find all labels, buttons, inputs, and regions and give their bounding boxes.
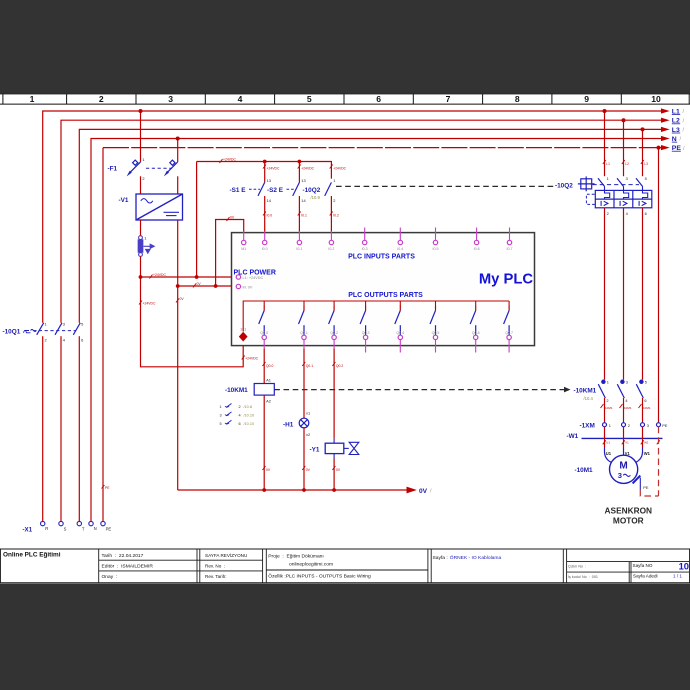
svg-text:Rev. No :: Rev. No : xyxy=(205,564,225,569)
PE drop wire to 1XM xyxy=(658,148,660,423)
svg-text:Sayfa NO: Sayfa NO xyxy=(633,563,653,568)
svg-text:13: 13 xyxy=(301,178,305,183)
wire 10Q2 aux to PLC input I0.2 xyxy=(330,196,332,233)
svg-text:I0.7: I0.7 xyxy=(507,247,513,251)
svg-text:4: 4 xyxy=(626,211,629,216)
wire label -10M1 pole1 xyxy=(601,404,613,410)
output stub Q0.7 xyxy=(508,340,510,353)
svg-text:-F1: -F1 xyxy=(108,166,118,173)
svg-text:14: 14 xyxy=(301,198,306,203)
svg-text:6: 6 xyxy=(81,338,83,343)
svg-text:2: 2 xyxy=(142,176,144,181)
svg-text:/: / xyxy=(683,109,685,115)
wire label +24VDC on output riser xyxy=(242,356,259,361)
svg-text:L1: +24VDC: L1: +24VDC xyxy=(243,276,264,280)
wire label I0.2 xyxy=(330,212,339,218)
motor PE lead xyxy=(639,478,641,490)
wire label +24VDC at 10Q2 aux xyxy=(330,165,347,171)
svg-text:+24VDC: +24VDC xyxy=(143,302,156,306)
svg-text:+24VDC: +24VDC xyxy=(301,166,314,170)
svg-text:4: 4 xyxy=(239,413,241,417)
10Q2 breaker pins 2,4,6 xyxy=(607,211,647,216)
cable W1 line xyxy=(582,437,663,439)
KM1 contact pole 2 xyxy=(617,380,624,398)
svg-text:Sayfa :: Sayfa : xyxy=(433,555,448,561)
output stub Q0.5 xyxy=(435,340,437,353)
svg-text:İş kodu/ No : 001: İş kodu/ No : 001 xyxy=(568,574,598,579)
wire label Q0.2 net xyxy=(332,362,343,368)
wire V1 out to fuse xyxy=(140,220,142,236)
svg-text:8: 8 xyxy=(515,94,520,104)
svg-text:+24VDC: +24VDC xyxy=(267,166,280,170)
0V rail to PLC power M xyxy=(178,285,239,287)
wire 1XM:1 to motor U1 xyxy=(604,427,606,448)
bus L3 wire xyxy=(79,129,661,521)
svg-text:0V: 0V xyxy=(197,282,202,286)
svg-text:PLC INPUTS PARTS: PLC INPUTS PARTS xyxy=(348,254,415,261)
svg-text:0V: 0V xyxy=(230,216,235,220)
KM1 contact pole 1 xyxy=(598,380,605,398)
wire L1 drop to breaker 10Q2 xyxy=(604,111,606,176)
terminal X1:S xyxy=(59,521,63,525)
node L3 arrow xyxy=(661,127,685,134)
svg-text:L3: L3 xyxy=(644,162,648,166)
junction on N at F1 xyxy=(176,137,180,141)
wire label PE on left PE drop xyxy=(102,485,111,490)
0V drop from rail to bottom 0V bus xyxy=(177,286,179,490)
svg-text:0V: 0V xyxy=(180,297,185,301)
svg-text:1: 1 xyxy=(607,379,609,384)
10Q2 overload box xyxy=(595,190,652,207)
KM1 contact pins 1,3,5 xyxy=(607,379,647,384)
breaker F1 pole 2 xyxy=(166,160,178,173)
X1 terminal names R S T N PE xyxy=(45,526,111,532)
svg-text:L1: L1 xyxy=(606,162,610,166)
wire label Q0.1 net xyxy=(302,362,313,368)
red stub from bus Q0.6 xyxy=(475,301,477,306)
svg-text:-V1: -V1 xyxy=(119,197,129,204)
svg-text:My PLC: My PLC xyxy=(479,271,534,287)
svg-text:-X1: -X1 xyxy=(23,527,33,534)
wire V1 0V output down xyxy=(177,220,179,286)
overload hook pole 2 xyxy=(624,187,629,200)
wire label V1 tick xyxy=(622,440,629,444)
svg-text:Online PLC Eğitimi: Online PLC Eğitimi xyxy=(3,552,61,559)
wire label 0V on M1 riser xyxy=(227,216,235,221)
10Q1 pin numbers xyxy=(45,322,84,343)
svg-text:2: 2 xyxy=(239,405,241,409)
1XM terminal 2 xyxy=(622,423,626,427)
junction 0V rail at V1 drop xyxy=(176,284,180,288)
wire 1XM:2 to motor V1 xyxy=(623,427,625,448)
svg-text:+24VDC: +24VDC xyxy=(333,166,346,170)
svg-text:-W1: -W1 xyxy=(567,433,579,440)
output stub Q0.6 xyxy=(475,340,477,353)
svg-text:-10KM1: -10KM1 xyxy=(574,388,597,395)
wire KM1 pole3 to 1XM:3 xyxy=(642,398,644,423)
PLC input terminal circles xyxy=(242,240,512,244)
PLC output switch Q0.2 xyxy=(329,306,335,335)
pushbutton S1E contact xyxy=(258,182,265,196)
red stub from bus Q0.3 xyxy=(365,301,367,306)
wire label Q0.0 net xyxy=(263,362,274,368)
svg-text:I0.1: I0.1 xyxy=(296,247,302,251)
magnetic trip I> pole 2 xyxy=(620,201,627,206)
svg-text:6: 6 xyxy=(376,94,381,104)
wire L2 drop to breaker 10Q2 xyxy=(623,120,625,176)
wire label 0V below H1 xyxy=(302,466,310,472)
svg-text:3: 3 xyxy=(626,176,628,181)
wire label +24VDC on drop xyxy=(139,301,156,306)
svg-text:PE: PE xyxy=(105,486,110,490)
mechanical dashed link KM1 coil to contacts xyxy=(274,389,564,391)
wire 10Q2 to KM1 contact pole1 xyxy=(604,208,606,380)
svg-text:I0.4: I0.4 xyxy=(397,247,403,251)
output stub Q0.0 xyxy=(263,340,265,349)
red stub from bus Q0.2 xyxy=(333,301,335,306)
output stub Q0.3 xyxy=(365,340,367,353)
svg-text:PLC OUTPUTS PARTS: PLC OUTPUTS PARTS xyxy=(348,292,423,299)
svg-text:-10Q1: -10Q1 xyxy=(3,328,21,335)
wire label 0V on drop xyxy=(176,297,184,302)
svg-text:2: 2 xyxy=(606,398,608,403)
svg-text:5: 5 xyxy=(220,422,222,426)
svg-text:+24VDC: +24VDC xyxy=(153,273,166,277)
svg-text:+24VDC: +24VDC xyxy=(223,158,236,162)
motor PE stub xyxy=(633,476,641,484)
svg-text:x1: x1 xyxy=(306,410,310,415)
svg-text:1: 1 xyxy=(142,157,144,162)
svg-text:ASENKRON: ASENKRON xyxy=(605,506,652,516)
wire F1 pole2 to V1 xyxy=(177,176,179,194)
wire L1 junction down to F1 pole 1 xyxy=(140,111,142,162)
wire 1XM:3 to motor W1 xyxy=(642,427,644,448)
output stub Q0.4 xyxy=(399,340,401,353)
wire label +24VDC on input bus xyxy=(220,158,237,163)
wire label U1 tick xyxy=(603,440,611,444)
svg-text:Onay :: Onay : xyxy=(102,574,118,580)
KM1 contact cross-reference table xyxy=(220,405,241,426)
svg-text:-10M1: -10M1 xyxy=(604,406,613,410)
bus L1 wire xyxy=(43,111,662,521)
svg-text:3: 3 xyxy=(63,322,65,327)
svg-text:PE: PE xyxy=(106,527,112,532)
bottom dark footer bar xyxy=(0,583,690,690)
svg-text:I0.2: I0.2 xyxy=(328,247,334,251)
column numbers 1-10 xyxy=(30,94,661,104)
PE tick at 1XM xyxy=(657,440,660,444)
svg-text:-1XM: -1XM xyxy=(580,422,595,429)
PLC power terminal M xyxy=(236,284,240,288)
PE dashed cable to motor xyxy=(640,427,658,496)
breaker 10Q1 F-squiggle xyxy=(24,330,37,333)
svg-text:R: R xyxy=(45,526,48,531)
10Q2 breaker pins 1,3,5 xyxy=(607,176,647,181)
junction 0V rail to M1 riser xyxy=(214,284,218,288)
svg-text:10: 10 xyxy=(651,94,661,104)
svg-text:6: 6 xyxy=(644,398,646,403)
svg-text:0V: 0V xyxy=(306,468,311,472)
svg-text:13: 13 xyxy=(267,178,271,183)
wire F1 pole1 to V1 xyxy=(140,176,142,194)
svg-text:/10.4: /10.4 xyxy=(584,396,594,401)
band border and column ticks xyxy=(0,94,690,104)
svg-text:U1: U1 xyxy=(606,441,610,445)
junction 0V bus at H1 xyxy=(302,488,306,492)
svg-text:-S2 E: -S2 E xyxy=(267,187,284,194)
svg-text:Q0.2: Q0.2 xyxy=(336,364,343,368)
svg-text:2: 2 xyxy=(628,423,630,428)
svg-text:A2: A2 xyxy=(266,399,271,404)
svg-text:/: / xyxy=(683,128,685,134)
wire label L3 xyxy=(641,160,648,166)
svg-text:3: 3 xyxy=(647,423,649,428)
junction 0V bus at Y1 xyxy=(332,488,336,492)
svg-text:-S1 E: -S1 E xyxy=(230,187,247,194)
svg-text:PE: PE xyxy=(662,423,668,428)
top dark header bar xyxy=(0,0,690,93)
junction at fuse/rail xyxy=(139,275,143,279)
svg-text:I0.5: I0.5 xyxy=(433,247,439,251)
power supply V1 box xyxy=(136,194,183,220)
+24V drop from fuse junction to output common xyxy=(141,277,244,367)
svg-text:7: 7 xyxy=(446,94,451,104)
svg-text:3: 3 xyxy=(168,94,173,104)
1XM terminal 3 xyxy=(641,423,645,427)
pushbutton S2E contact xyxy=(293,182,300,196)
wire S2E to PLC input I0.1 xyxy=(298,196,300,233)
svg-text:4: 4 xyxy=(625,398,628,403)
wire label I0.1 xyxy=(298,212,307,218)
terminal X1:PE xyxy=(101,521,105,525)
svg-text:1L1: 1L1 xyxy=(240,327,246,331)
10Q2 dashed pole link xyxy=(593,184,640,186)
svg-text:Özellik :PLC INPUTS - OUTPUTS: Özellik :PLC INPUTS - OUTPUTS Basic Wiri… xyxy=(268,573,371,580)
svg-text:M: 0V: M: 0V xyxy=(243,286,253,290)
svg-text:2: 2 xyxy=(99,94,104,104)
svg-text:x2: x2 xyxy=(306,432,310,437)
node PE arrow xyxy=(661,145,685,152)
overload hook pole 1 xyxy=(605,187,610,200)
svg-text:Q0.1: Q0.1 xyxy=(306,364,313,368)
breaker F1 mechanical dashed link xyxy=(146,167,172,169)
svg-text:9: 9 xyxy=(584,94,589,104)
svg-text:/10.9: /10.9 xyxy=(311,195,321,200)
10Q2 dashed trip bracket xyxy=(586,194,595,204)
red stub from bus Q0.1 xyxy=(303,301,305,306)
junction input bus at S2E xyxy=(298,160,302,164)
fuse F2 on 24V output xyxy=(138,236,143,257)
wire label +24VDC at S1E xyxy=(263,165,280,171)
PLC output switch Q0.1 xyxy=(299,306,305,335)
svg-text:Tarih : 22.04.2017: Tarih : 22.04.2017 xyxy=(102,553,144,559)
svg-text:2: 2 xyxy=(607,211,609,216)
svg-text:/: / xyxy=(683,118,685,124)
svg-text:MOTOR: MOTOR xyxy=(613,515,644,525)
red stub from bus Q0.0 xyxy=(263,301,265,306)
wire label I0.0 xyxy=(263,212,272,218)
motor lead V1 xyxy=(623,448,625,456)
svg-text:W1: W1 xyxy=(644,441,649,445)
output stub Q0.1 xyxy=(303,340,305,349)
+24VDC rail to PLC power L+ xyxy=(141,276,239,278)
svg-text:-10Q2: -10Q2 xyxy=(303,187,321,194)
wire label +24VDC on rail xyxy=(150,273,167,278)
node L2 arrow xyxy=(661,118,685,125)
svg-text:V1: V1 xyxy=(625,441,629,445)
junction on PE at motor drop xyxy=(657,146,661,150)
terminal X1:T xyxy=(77,521,81,525)
PLC output bus xyxy=(243,301,509,332)
svg-text:5: 5 xyxy=(645,379,647,384)
svg-text:1 / 1: 1 / 1 xyxy=(673,574,682,579)
wire label 0V below Y1 xyxy=(332,466,340,472)
PLC output switch Q0.5 xyxy=(430,306,436,335)
svg-text:L2: L2 xyxy=(625,162,629,166)
wire label 0V below coil xyxy=(263,466,271,472)
svg-text:1: 1 xyxy=(607,176,609,181)
bus PE wire (dash-dot) xyxy=(103,148,662,522)
terminal X1:R xyxy=(41,521,45,525)
svg-text:Editör : ISMAILDEMIR: Editör : ISMAILDEMIR xyxy=(102,564,154,570)
svg-text:T: T xyxy=(82,527,85,532)
junction on L2 at 10Q2 xyxy=(622,118,626,122)
10Q2 breaker pole 2 blade xyxy=(617,178,624,186)
PLC power terminal L+ xyxy=(236,275,240,279)
red stub from bus Q0.7 xyxy=(508,301,510,306)
svg-text:3: 3 xyxy=(626,379,628,384)
svg-text:1: 1 xyxy=(609,423,611,428)
mechanical dashed link 10Q2 aux to breaker xyxy=(336,185,555,187)
svg-text:M: M xyxy=(619,460,627,471)
10Q2 breaker pole 1 blade xyxy=(598,178,605,186)
magnetic trip I> pole 1 xyxy=(601,201,608,206)
motor lead U1 xyxy=(605,448,612,463)
svg-text:-10M1: -10M1 xyxy=(642,406,651,410)
svg-text:5: 5 xyxy=(307,94,312,104)
bus N wire xyxy=(91,139,662,522)
wire Q0.1 to lamp H1 xyxy=(303,349,305,419)
coil 10KM1 xyxy=(254,384,274,396)
output stub Q0.2 xyxy=(333,340,335,349)
column number band xyxy=(0,94,690,104)
V1 AC sine symbol xyxy=(141,199,153,203)
svg-text:S: S xyxy=(64,527,67,532)
motor lead W1 xyxy=(636,448,643,463)
input +24VDC bus xyxy=(197,162,332,179)
svg-text:A1: A1 xyxy=(266,378,271,383)
svg-text:Proje : Eğitim Dökümanı: Proje : Eğitim Dökümanı xyxy=(268,553,323,559)
wire KM1 pole1 to 1XM:1 xyxy=(604,398,606,423)
wire Y1 to 0V bus xyxy=(333,454,335,459)
wire label W1 tick xyxy=(641,440,649,444)
wire KM1 pole2 to 1XM:2 xyxy=(623,398,625,423)
svg-text:-10M1: -10M1 xyxy=(575,467,594,474)
node N arrow xyxy=(661,136,682,143)
svg-text:0V: 0V xyxy=(266,468,271,472)
svg-text:/10.8: /10.8 xyxy=(244,405,252,409)
svg-text:1: 1 xyxy=(45,322,47,327)
wire 10Q2 to KM1 contact pole3 xyxy=(642,208,644,380)
junction input bus at S1E xyxy=(263,160,267,164)
svg-text:I0.2: I0.2 xyxy=(333,213,339,217)
svg-text:Q0.0: Q0.0 xyxy=(266,364,273,368)
wire label -10M1 pole2 xyxy=(620,404,632,410)
PLC output switch Q0.7 xyxy=(504,306,510,335)
wire H1 to 0V bus xyxy=(303,428,305,490)
svg-text:6: 6 xyxy=(239,422,241,426)
1XM terminal PE xyxy=(657,423,661,427)
wire Q0.2 to valve Y1 xyxy=(333,349,335,439)
bus L2 wire xyxy=(61,120,662,521)
PLC input terminal names xyxy=(241,247,512,251)
PLC input terminal stubs (magenta) xyxy=(244,228,510,241)
svg-text:Sayfa Adedi: Sayfa Adedi xyxy=(633,574,658,579)
wire Q0.0 to KM1 coil xyxy=(263,349,265,384)
1XM terminal 1 xyxy=(603,423,607,427)
KM1 contact pole 3 xyxy=(636,380,643,398)
terminal X1:N xyxy=(89,521,93,525)
svg-text:I0.0: I0.0 xyxy=(262,247,268,251)
overload hook pole 3 xyxy=(643,187,648,200)
wire S1E to PLC input I0.0 xyxy=(264,196,266,233)
KM1 contact pins 2,4,6 xyxy=(606,398,646,403)
output common terminal 1L1 diamond xyxy=(239,332,248,342)
junction 0V bus at KM1 xyxy=(262,488,266,492)
PLC output switch Q0.4 xyxy=(395,306,401,335)
red stub from bus Q0.4 xyxy=(399,301,401,306)
wire label +24VDC at S2E xyxy=(298,165,315,171)
0V return bus xyxy=(178,489,407,491)
svg-text:PE: PE xyxy=(643,485,649,490)
svg-text:N: N xyxy=(94,526,97,531)
breaker 10Q1 mechanical dashed link xyxy=(33,330,76,332)
svg-text:5: 5 xyxy=(81,322,83,327)
svg-text:4: 4 xyxy=(238,94,243,104)
svg-text:0V: 0V xyxy=(336,468,341,472)
svg-text:/: / xyxy=(430,489,432,495)
valve body symbol xyxy=(344,442,359,454)
junction on L1 at F1 xyxy=(139,109,143,113)
10Q2 breaker pole 3 blade xyxy=(636,178,643,186)
wire fuse to +24V rail xyxy=(140,256,142,277)
PLC output switch Q0.3 xyxy=(360,306,366,335)
wire bus to S2E contact xyxy=(298,162,300,183)
svg-text:W1: W1 xyxy=(644,451,651,456)
svg-text:-10KM1: -10KM1 xyxy=(225,387,248,394)
title block frame xyxy=(0,549,690,583)
PLC output switch Q0.6 xyxy=(470,306,476,335)
motor 10M1 circle xyxy=(610,455,638,483)
indicator lamp H1 xyxy=(299,418,309,428)
wire KM1 coil to 0V bus xyxy=(263,395,265,490)
breaker 10Q1 pole 2 (L2) xyxy=(55,323,63,336)
fuse side polarity symbol xyxy=(144,244,155,253)
svg-text:-10M1: -10M1 xyxy=(623,406,632,410)
V1 DC bars symbol xyxy=(164,212,180,215)
svg-text:4: 4 xyxy=(63,338,66,343)
svg-text:I0.0: I0.0 xyxy=(267,213,273,217)
svg-text:SAYFA REVİZYONU: SAYFA REVİZYONU xyxy=(205,552,247,558)
svg-text:14: 14 xyxy=(267,198,272,203)
PLC output switch Q0.0 xyxy=(259,306,265,335)
svg-text:1: 1 xyxy=(333,178,335,183)
svg-text:-Y1: -Y1 xyxy=(310,447,320,454)
10Q2 manual operator square xyxy=(578,176,595,191)
svg-text:-H1: -H1 xyxy=(283,421,294,428)
wire bus to S1E contact xyxy=(264,162,266,183)
svg-text:6: 6 xyxy=(645,211,647,216)
